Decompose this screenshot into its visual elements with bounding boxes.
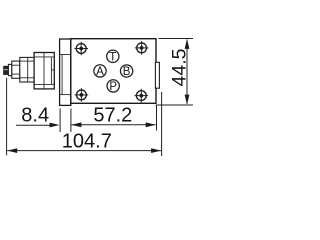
dim 44.5 extension line top bbox=[159, 38, 193, 40]
dim 44.5 extension line bottom bbox=[156, 104, 193, 106]
port A bbox=[94, 65, 106, 78]
dim 44.5 line bbox=[186, 40, 188, 105]
mounting hole bottom-right bbox=[135, 89, 149, 103]
dim 57.2 line bbox=[72, 124, 156, 126]
dim 57.2 arrow right bbox=[146, 122, 156, 127]
mounting hole top-right bbox=[135, 41, 149, 55]
svg-text:A: A bbox=[96, 66, 104, 78]
dim 8.4 extension line left bbox=[59, 109, 61, 133]
dim 8.4 arrow right bbox=[50, 123, 60, 128]
dim 44.5 arrow down bbox=[185, 95, 190, 105]
locating tab bbox=[155, 62, 159, 88]
port T bbox=[107, 50, 119, 63]
port P bbox=[107, 80, 119, 93]
svg-text:8.4: 8.4 bbox=[21, 105, 49, 127]
manual override pin bbox=[4, 66, 9, 74]
hex nut C bbox=[34, 53, 54, 89]
svg-text:44.5: 44.5 bbox=[169, 48, 191, 86]
hex nut A bbox=[12, 61, 20, 78]
dim 104.7 extension line left bbox=[6, 78, 8, 155]
mounting hole top-left bbox=[74, 42, 88, 56]
dim 104.7 arrow left bbox=[7, 148, 17, 153]
svg-text:P: P bbox=[109, 81, 117, 93]
svg-text:57.2: 57.2 bbox=[93, 104, 132, 126]
svg-text:T: T bbox=[109, 51, 116, 63]
dim 57.2 extension line right bbox=[156, 106, 158, 131]
svg-text:B: B bbox=[123, 66, 131, 78]
dim 8.4 tail line bbox=[16, 124, 50, 126]
svg-text:104.7: 104.7 bbox=[62, 131, 112, 153]
dim 104.7 arrow right bbox=[151, 148, 161, 153]
dim 104.7 extension line right bbox=[161, 92, 163, 156]
dim 44.5 arrow up bbox=[185, 39, 190, 49]
coil flange bbox=[60, 39, 71, 105]
dim 104.7 line bbox=[7, 150, 161, 152]
dim 57.2 arrow left bbox=[71, 122, 81, 127]
dim 8.4 extension line right bbox=[70, 109, 72, 133]
valve body bbox=[71, 39, 156, 104]
mounting hole bottom-left bbox=[75, 88, 89, 102]
hex nut B bbox=[20, 57, 34, 82]
pin base block bbox=[8, 64, 11, 75]
port B bbox=[120, 65, 132, 78]
